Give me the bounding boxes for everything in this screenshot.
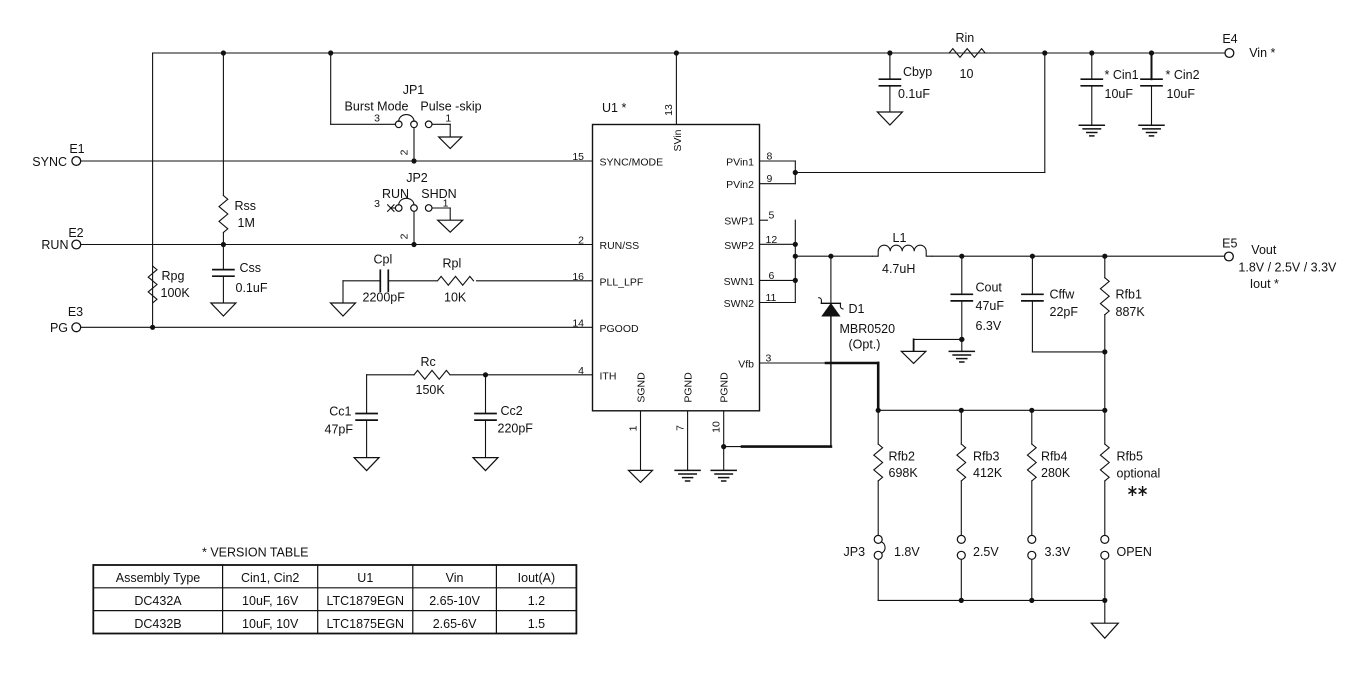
node PG wire E3 to pin14 [81, 326, 593, 328]
svg-text:Rpl: Rpl [443, 257, 462, 271]
svg-text:* VERSION TABLE: * VERSION TABLE [202, 546, 309, 560]
wire Cin1 branch [1091, 53, 1093, 79]
svg-text:8: 8 [767, 151, 773, 163]
svg-text:100K: 100K [161, 286, 191, 300]
svg-text:10: 10 [711, 421, 723, 433]
wire JP2 pin2 to RUN [413, 211, 415, 244]
terminal E1 SYNC [72, 157, 81, 166]
svg-text:Rin: Rin [956, 31, 975, 45]
wire rail junction down to PVin [1044, 53, 1046, 173]
wire ITH net [451, 374, 593, 376]
svg-text:1: 1 [627, 425, 639, 431]
svg-text:1.5: 1.5 [528, 617, 545, 631]
svg-text:412K: 412K [973, 466, 1003, 480]
junction dot Cout gnd [959, 337, 964, 342]
resistor Rfb5 optional [1100, 444, 1109, 481]
svg-text:150K: 150K [416, 383, 446, 397]
svg-text:9: 9 [767, 173, 773, 185]
wire Rss to RUN net [222, 233, 224, 245]
jumper 3.3V option [1028, 535, 1036, 543]
resistor Rfb1 887K [1100, 278, 1109, 315]
svg-text:SWN2: SWN2 [724, 298, 754, 310]
capacitor Css 0.1uF [213, 269, 234, 271]
wire pin5 stub [760, 219, 768, 221]
ground for JP1 [439, 137, 462, 149]
wire JP2 pin1 to ground [432, 207, 450, 209]
no-connect x on JP2 pin 3 [388, 205, 394, 212]
wire PGND pin7 down [687, 411, 689, 471]
svg-text:Rfb1: Rfb1 [1116, 288, 1142, 302]
svg-text:PGOOD: PGOOD [600, 323, 640, 335]
svg-text:RUN/SS: RUN/SS [600, 240, 640, 252]
wire Rfb1 bottom to fb bus [1104, 352, 1106, 410]
svg-text:3: 3 [374, 198, 380, 210]
svg-text:SWP2: SWP2 [724, 240, 754, 252]
wire Rfb3 column [960, 410, 962, 444]
svg-text:2200pF: 2200pF [363, 291, 406, 305]
svg-text:E4: E4 [1222, 32, 1237, 46]
svg-text:10: 10 [960, 67, 974, 81]
jumper 2.5V option [957, 535, 965, 543]
svg-text:SWN1: SWN1 [724, 276, 754, 288]
terminal E2 RUN [72, 240, 81, 249]
svg-text:PGND: PGND [719, 372, 731, 403]
svg-text:11: 11 [766, 292, 777, 304]
svg-text:10uF: 10uF [1167, 87, 1196, 101]
wire JP1 pin1 to ground [432, 123, 450, 125]
svg-text:887K: 887K [1116, 305, 1146, 319]
version table [93, 565, 576, 634]
junction dot ITH Cc2 [483, 372, 488, 377]
wire Cout ground links [914, 338, 962, 340]
svg-text:L1: L1 [893, 231, 907, 245]
svg-text:3.3V: 3.3V [1045, 545, 1071, 559]
svg-text:Cbyp: Cbyp [903, 65, 932, 79]
svg-text:D1: D1 [849, 302, 865, 316]
wire Vin top rail [153, 52, 1225, 54]
svg-text:E1: E1 [69, 142, 84, 156]
resistor Rss 1M [219, 196, 228, 233]
wire Cc2 branch [485, 375, 487, 414]
svg-text:47uF: 47uF [976, 299, 1005, 313]
svg-text:Rfb5: Rfb5 [1117, 450, 1143, 464]
wire Cpl to ground [342, 281, 344, 303]
jumper JP3 shunt arc [882, 542, 886, 553]
svg-text:0.1uF: 0.1uF [898, 87, 930, 101]
svg-text:* Cin2: * Cin2 [1166, 68, 1200, 82]
junction dot JP1-SYNC [411, 158, 416, 163]
svg-text:13: 13 [663, 104, 675, 116]
wire pin6 stub [760, 279, 796, 281]
wire fb top bus [878, 409, 1105, 411]
wire PLL_LPF net [477, 280, 593, 282]
svg-text:RUN: RUN [41, 238, 68, 252]
resistor Rfb4 280K [1027, 444, 1036, 481]
svg-text:SWP1: SWP1 [724, 216, 754, 228]
svg-text:5: 5 [769, 210, 775, 222]
ground for Cin1 earth [1079, 124, 1104, 126]
svg-text:Vin *: Vin * [1249, 46, 1275, 60]
wire Rfb2 column [877, 410, 879, 444]
inductor L1 4.7uH [872, 245, 932, 256]
wire Cout branch [961, 256, 963, 294]
node Vout wire L1 to E5 [932, 255, 1224, 257]
svg-text:15: 15 [572, 151, 584, 163]
svg-text:MBR0520: MBR0520 [840, 322, 896, 336]
capacitor Cbyp 0.1uF [879, 78, 900, 80]
wire bottom bus to ground [1104, 600, 1106, 623]
svg-text:1.8V: 1.8V [894, 545, 920, 559]
junction dots on RUN net [221, 242, 226, 247]
svg-text:DC432A: DC432A [134, 594, 182, 608]
junction dots fb top bus [876, 408, 881, 413]
terminal E4 Vin [1225, 49, 1234, 58]
ground for Css [211, 303, 236, 316]
node SW wire to L1 [795, 255, 872, 257]
svg-text:7: 7 [674, 425, 686, 431]
junction dot PVin [793, 170, 798, 175]
svg-text:JP1: JP1 [403, 83, 425, 97]
wire Cbyp branch [889, 53, 891, 79]
resistor Rpl 10K [438, 276, 474, 285]
resistor Rfb2 698K [874, 444, 883, 481]
svg-text:280K: 280K [1041, 466, 1071, 480]
svg-text:JP3: JP3 [844, 545, 866, 559]
svg-text:E5: E5 [1222, 237, 1237, 251]
svg-text:Cc2: Cc2 [501, 404, 523, 418]
svg-text:10uF: 10uF [1105, 87, 1134, 101]
capacitor Cffw 22pF [1022, 293, 1043, 295]
ground PGND pin7 earth [675, 469, 700, 471]
svg-text:SVin: SVin [672, 129, 684, 151]
terminal E5 Vout [1225, 252, 1234, 261]
ground PGND pin10 earth [711, 469, 736, 471]
svg-text:2: 2 [399, 149, 411, 155]
svg-text:* Cin1: * Cin1 [1105, 68, 1139, 82]
junction dots on Vin rail [221, 50, 226, 55]
svg-text:2.65-6V: 2.65-6V [433, 617, 477, 631]
svg-text:SHDN: SHDN [421, 187, 456, 201]
svg-text:Cout: Cout [976, 281, 1003, 295]
svg-text:ITH: ITH [600, 370, 617, 382]
svg-text:10uF, 10V: 10uF, 10V [242, 617, 299, 631]
ground for Cpl [331, 303, 356, 316]
junction dots fb bottom bus [959, 598, 964, 603]
ground SGND pin1 [629, 470, 653, 482]
svg-text:Iout *: Iout * [1250, 277, 1279, 291]
svg-text:Cpl: Cpl [374, 253, 393, 267]
wire SGND pin1 down [640, 411, 642, 471]
svg-text:optional: optional [1117, 467, 1161, 481]
svg-text:Assembly Type: Assembly Type [116, 571, 201, 585]
resistor Rin 10 [949, 49, 985, 58]
svg-text:4: 4 [578, 365, 584, 377]
svg-text:PG: PG [50, 321, 68, 335]
svg-text:2: 2 [578, 235, 584, 247]
svg-text:47pF: 47pF [325, 423, 354, 437]
svg-text:Vout: Vout [1251, 243, 1277, 257]
wire PVin to Vin junction [795, 172, 1045, 174]
junction dot Rfb1 bottom [1102, 349, 1107, 354]
svg-text:220pF: 220pF [498, 422, 534, 436]
svg-text:PGND: PGND [682, 372, 694, 403]
wire SVin pin13 to rail [675, 53, 677, 125]
wire D1 anode down to PGND trace [830, 316, 832, 447]
capacitor Cc2 220pF [475, 413, 496, 415]
junction dots Vout wire [828, 254, 833, 259]
svg-text:10uF, 16V: 10uF, 16V [242, 594, 299, 608]
svg-text:1: 1 [445, 112, 451, 124]
junction dot Rpg-PG [150, 325, 155, 330]
node RUN wire E2 to pin2 [81, 244, 593, 246]
junction dots SW bus [793, 242, 798, 247]
resistor Rc 150K [414, 370, 450, 379]
svg-text:E3: E3 [68, 305, 83, 319]
svg-text:Cc1: Cc1 [329, 405, 351, 419]
svg-text:PLL_LPF: PLL_LPF [600, 276, 644, 288]
ground for JP2 [438, 220, 463, 232]
svg-text:SYNC: SYNC [32, 155, 67, 169]
svg-text:Cin1, Cin2: Cin1, Cin2 [241, 571, 299, 585]
svg-text:Rss: Rss [235, 199, 257, 213]
svg-text:3: 3 [374, 112, 380, 124]
ground for fb bottom bus [1091, 623, 1118, 638]
svg-text:1: 1 [443, 197, 449, 209]
svg-text:1M: 1M [238, 216, 255, 230]
wire Rfb1 branch [1104, 256, 1106, 278]
transistor D1 MBR0520 schottky diode [821, 302, 840, 304]
svg-text:12: 12 [766, 234, 778, 246]
svg-text:2.65-10V: 2.65-10V [429, 594, 480, 608]
svg-text:Rfb2: Rfb2 [889, 450, 915, 464]
svg-text:U1 *: U1 * [602, 101, 626, 115]
wire Rfb5 column [1104, 410, 1106, 444]
svg-text:2: 2 [399, 233, 411, 239]
svg-text:Vin: Vin [446, 571, 464, 585]
wire Vfb pin3 stub [760, 362, 827, 364]
svg-text:10K: 10K [444, 291, 467, 305]
capacitor Cc1 47pF [356, 413, 377, 415]
svg-text:4.7uH: 4.7uH [882, 262, 915, 276]
svg-text:LTC1875EGN: LTC1875EGN [327, 617, 405, 631]
svg-text:Rc: Rc [421, 355, 436, 369]
jumper JP2 shunt arc [399, 198, 414, 205]
wire pin12 stub [760, 243, 796, 245]
wire Rfb4 column [1031, 410, 1033, 444]
svg-text:Cffw: Cffw [1050, 288, 1076, 302]
svg-text:PVin2: PVin2 [726, 179, 754, 191]
svg-text:1.2: 1.2 [528, 594, 545, 608]
ground for Cin2 earth [1139, 124, 1164, 126]
wire JP1 branch from rail [330, 53, 332, 124]
op-amp U1 LTC1879 chip body [593, 125, 760, 411]
wire Cc1 branch [366, 375, 368, 414]
svg-text:(Opt.): (Opt.) [849, 338, 881, 352]
jumper OPEN option [1101, 535, 1109, 543]
svg-text:Rfb4: Rfb4 [1041, 450, 1067, 464]
wire fb bottom bus [878, 599, 1105, 601]
wire Cin2 branch [1151, 53, 1153, 79]
svg-text:Vfb: Vfb [738, 359, 754, 371]
capacitor Cout 47uF [951, 293, 972, 295]
capacitor Cin2 10uF [1141, 78, 1162, 80]
wire Css to ground [222, 276, 224, 303]
svg-text:6.3V: 6.3V [976, 319, 1002, 333]
junction dot PGND pin10 [721, 444, 726, 449]
svg-text:Rpg: Rpg [162, 269, 185, 283]
svg-text:DC432B: DC432B [134, 617, 181, 631]
svg-text:U1: U1 [357, 571, 373, 585]
wire Cffw branch [1031, 256, 1033, 294]
capacitor Cin1 10uF [1081, 78, 1102, 80]
wire Rss column from rail to Rss [222, 53, 224, 196]
resistor Rpg 100K [148, 266, 157, 303]
ground for Cc1 [354, 458, 379, 471]
svg-text:6: 6 [769, 270, 775, 282]
svg-text:SYNC/MODE: SYNC/MODE [600, 157, 664, 169]
wire PGND pin10 to trace [723, 411, 725, 471]
svg-text:LTC1879EGN: LTC1879EGN [327, 594, 405, 608]
wire JP1 pin2 to SYNC [413, 128, 415, 161]
svg-text:Css: Css [240, 261, 262, 275]
terminal E3 PG [72, 323, 81, 332]
capacitor Cpl 2200pF [379, 270, 381, 291]
ground for Cc2 [473, 458, 498, 471]
ground for Cout triangle [901, 351, 926, 363]
svg-text:22pF: 22pF [1050, 305, 1079, 319]
wire Rpg column E3 to Vin rail [152, 53, 154, 327]
wire Cffw bottom to Rfb1 bottom [1032, 351, 1104, 353]
svg-text:14: 14 [572, 317, 584, 329]
wire D1 cathode to SW [830, 256, 832, 303]
wire PVin1/PVin2 stubs [760, 160, 796, 162]
ground for Cout earth [949, 350, 974, 352]
wire Vfb thick trace [826, 362, 878, 365]
svg-text:PVin1: PVin1 [726, 157, 754, 169]
ground for Cbyp [877, 112, 902, 125]
svg-text:Iout(A): Iout(A) [518, 571, 556, 585]
svg-text:OPEN: OPEN [1117, 545, 1152, 559]
svg-text:JP2: JP2 [406, 171, 428, 185]
svg-text:1.8V / 2.5V / 3.3V: 1.8V / 2.5V / 3.3V [1238, 260, 1337, 274]
wire RUN net to Css [222, 245, 224, 270]
svg-text:698K: 698K [889, 466, 919, 480]
svg-text:3: 3 [766, 353, 772, 365]
svg-text:E2: E2 [68, 226, 83, 240]
resistor Rfb3 412K [957, 444, 966, 481]
svg-text:0.1uF: 0.1uF [236, 281, 268, 295]
wire pin11 stub [760, 302, 796, 304]
svg-text:16: 16 [572, 271, 584, 283]
node SYNC wire E1 to pin15 [81, 160, 593, 162]
svg-text:2.5V: 2.5V [973, 545, 999, 559]
wire SW bus vertical [794, 220, 796, 302]
svg-text:SGND: SGND [635, 372, 647, 403]
svg-text:Rfb3: Rfb3 [973, 450, 999, 464]
wire PGND thick trace to D1 anode [724, 446, 742, 448]
jumper JP1 shunt arc [399, 115, 414, 122]
